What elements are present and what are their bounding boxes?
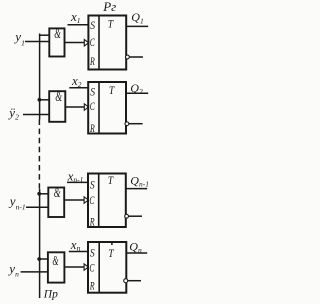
wire: xn stub into S input of flip-flop 4 (69, 251, 88, 253)
label: C pin of flip-flop 2 (90, 99, 96, 113)
svg-text:&: & (55, 89, 62, 104)
node: junction dot bus to AND gate 4 (37, 257, 41, 261)
node: junction dot bus to AND gate 2 (38, 98, 42, 102)
label: Рг (register title) (102, 0, 116, 14)
label: T type of flip-flop 3 (108, 173, 114, 187)
wire: inverted Q1 output stub (129, 56, 143, 58)
wire: Qn-1 output (126, 188, 147, 190)
flip-flop U4 body (88, 242, 126, 293)
dynamic input triangle at C of flip-flop 3 (84, 197, 88, 204)
svg-text:S: S (90, 177, 95, 191)
svg-text:Пр: Пр (43, 289, 58, 301)
wire: inverted Qn-1 output stub (129, 215, 143, 217)
svg-text:R: R (89, 54, 95, 68)
wire: Пр bus vertical solid bottom segment (39, 189, 41, 298)
inverted output circle of flip-flop 3 (125, 214, 129, 218)
svg-text:Рг: Рг (102, 0, 116, 14)
wire: AND gate 2 output to C input of flip-flop 2 (65, 106, 84, 108)
wire: inverted Qn output stub (128, 280, 141, 282)
wire: x2 stub into S input of flip-flop 2 (69, 87, 88, 89)
label: S pin of flip-flop 2 (90, 84, 95, 98)
label: C pin of flip-flop 4 (89, 260, 95, 274)
label: y1 (13, 29, 25, 48)
wire: Пр bus vertical solid top segment (39, 34, 41, 120)
inverted output circle of flip-flop 1 (126, 55, 130, 59)
svg-text:S: S (90, 84, 95, 98)
wire: y1 input to AND gate 1 (25, 41, 50, 43)
wire: bus branch to AND gate 2 top input (39, 99, 49, 101)
svg-text:C: C (90, 99, 96, 113)
flip-flop U1 body (88, 16, 126, 70)
svg-text:S: S (90, 245, 95, 259)
flip-flop U3 body (88, 174, 126, 228)
AND gate D3 (48, 185, 64, 217)
label: R pin of flip-flop 3 (89, 214, 95, 228)
flip-flop U2 body (88, 82, 126, 134)
svg-text:&: & (54, 26, 61, 41)
label: C pin of flip-flop 1 (90, 35, 96, 49)
inverted output circle of flip-flop 2 (125, 122, 129, 126)
wire: AND gate 3 output to C input of flip-flop 3 (64, 199, 84, 201)
svg-text:R: R (89, 214, 95, 228)
wire: AND gate 4 output to C input of flip-flop 4 (64, 266, 84, 268)
label: S pin of flip-flop 3 (90, 177, 95, 191)
label: y2 inverted (7, 105, 19, 122)
wire: Qn output (126, 252, 147, 254)
wire: Q1 output (126, 25, 148, 27)
wire: yn-1 input to AND gate 3 (26, 206, 49, 208)
svg-text:&: & (54, 185, 61, 200)
wire: inverted Q2 output stub (129, 123, 143, 125)
label: x1 (70, 9, 81, 25)
wire: Q2 output (126, 92, 148, 94)
label: S pin of flip-flop 1 (90, 18, 95, 32)
label: R pin of flip-flop 1 (89, 54, 95, 68)
label: xn (70, 237, 81, 253)
AND gate D2 (49, 89, 65, 122)
AND gate D4 (48, 252, 65, 282)
wire: bus branch to AND gate 4 top input (39, 258, 48, 260)
svg-text:C: C (89, 260, 95, 274)
svg-text:C: C (89, 193, 95, 207)
wire: bus branch to AND gate 1 top input (39, 34, 50, 36)
wire: yn input to AND gate 4 (21, 271, 48, 273)
dynamic input triangle at C of flip-flop 4 (84, 264, 88, 271)
dynamic input triangle at C of flip-flop 2 (84, 104, 88, 111)
wire: xn-1 stub into S input of flip-flop 3 (67, 181, 88, 183)
label: Qn-1 (130, 173, 149, 188)
AND gate D1 (49, 26, 64, 57)
label: R pin of flip-flop 2 (89, 121, 95, 135)
label: xn-1 (67, 169, 84, 185)
svg-text:R: R (89, 121, 95, 135)
label: x2 (71, 73, 82, 89)
label: Q1 (131, 10, 143, 25)
svg-text:S: S (90, 18, 95, 32)
label: T type of flip-flop 4 (with dot mark) (108, 243, 114, 260)
label: yn-1 (8, 193, 26, 211)
svg-text:C: C (90, 35, 96, 49)
wire: AND gate 1 output to C input of flip-flop 1 (65, 42, 85, 44)
svg-text:R: R (89, 278, 95, 292)
svg-text:&: & (52, 253, 58, 268)
label: S pin of flip-flop 4 (90, 245, 95, 259)
label: Пр strobe input (43, 289, 58, 301)
dynamic input triangle at C of flip-flop 1 (84, 40, 88, 47)
label: T type of flip-flop 2 (109, 83, 115, 97)
label: T type of flip-flop 1 (108, 16, 114, 30)
inverted output circle of flip-flop 4 (124, 279, 128, 283)
label: yn (7, 261, 19, 279)
wire: Пр bus dashed continuation segment (38, 120, 40, 190)
node: junction dot bus to AND gate 3 (37, 192, 41, 196)
wire: x1 stub into S input of flip-flop 1 (68, 24, 89, 26)
label: C pin of flip-flop 3 (89, 193, 95, 207)
wire: inverted y2 input to AND gate 2 (23, 114, 49, 116)
label: Q2 (130, 81, 143, 96)
wire: bus branch to AND gate 3 top input (39, 193, 49, 195)
label: R pin of flip-flop 4 (89, 278, 95, 292)
label: Qn (129, 239, 142, 254)
